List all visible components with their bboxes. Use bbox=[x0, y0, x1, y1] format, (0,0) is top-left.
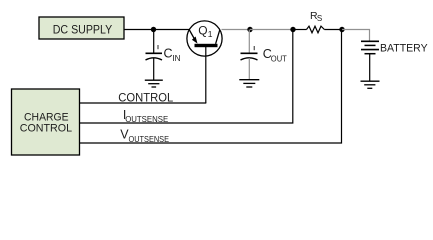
wire battery to ground bbox=[369, 54, 371, 81]
wire Q1 collector to COUT node (gray) bbox=[222, 29, 251, 31]
svg-text:BATTERY: BATTERY bbox=[380, 42, 428, 54]
wire Q1 base to CONTROL bbox=[205, 47, 207, 104]
svg-text:IN: IN bbox=[172, 53, 180, 63]
svg-text:S: S bbox=[317, 14, 322, 23]
node RS right junction bbox=[339, 27, 344, 32]
ground (battery) bbox=[361, 81, 380, 88]
svg-text:CONTROL: CONTROL bbox=[20, 123, 72, 135]
resistor RS bbox=[293, 10, 342, 33]
svg-text:OUT: OUT bbox=[271, 53, 287, 63]
svg-text:1: 1 bbox=[208, 29, 213, 39]
wire DC supply to Q1 emitter bbox=[124, 29, 190, 31]
svg-text:CONTROL: CONTROL bbox=[118, 90, 173, 104]
DC supply box bbox=[39, 17, 124, 39]
capacitor CIN bbox=[146, 45, 181, 63]
ground (COUT) bbox=[239, 80, 259, 87]
battery bbox=[361, 41, 428, 54]
capacitor COUT bbox=[241, 46, 287, 63]
node IOUTSENSE label bbox=[123, 108, 169, 124]
node output junction bbox=[247, 27, 252, 32]
wire IOUTSENSE net bbox=[80, 30, 293, 124]
wire COUT node to RS node (gray) bbox=[250, 29, 293, 31]
svg-text:C: C bbox=[164, 47, 173, 61]
svg-text:OUTSENSE: OUTSENSE bbox=[125, 114, 168, 124]
svg-text:Q: Q bbox=[198, 24, 207, 38]
wire CONTROL net bbox=[80, 102, 207, 104]
charge control box bbox=[12, 89, 80, 155]
wire CIN lead from node bbox=[153, 30, 155, 53]
node VOUTSENSE label bbox=[120, 128, 169, 144]
node RS left junction bbox=[290, 27, 295, 32]
wire RS node to battery (gray) bbox=[342, 30, 370, 42]
ground (CIN) bbox=[145, 80, 163, 87]
wire COUT to ground (gray) bbox=[248, 58, 250, 80]
wire COUT lead (gray) bbox=[248, 30, 250, 53]
svg-text:CHARGE: CHARGE bbox=[24, 111, 69, 123]
node input junction bbox=[151, 27, 156, 32]
svg-text:DC SUPPLY: DC SUPPLY bbox=[53, 22, 113, 36]
wire VOUTSENSE net bbox=[80, 30, 342, 144]
transistor Q1 bbox=[187, 21, 222, 56]
svg-text:OUTSENSE: OUTSENSE bbox=[129, 134, 170, 144]
wire CIN to ground bbox=[153, 58, 155, 80]
